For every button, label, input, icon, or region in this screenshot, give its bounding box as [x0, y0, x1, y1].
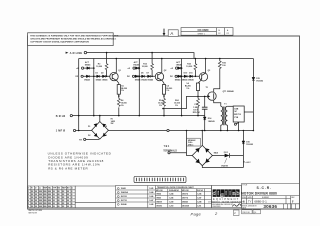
svg-text:1N645: 1N645 — [156, 197, 161, 200]
svg-text:MFG NO: MFG NO — [156, 190, 163, 192]
svg-text:88: 88 — [67, 194, 69, 196]
notes box top-left — [28, 33, 119, 46]
svg-text:1-246: 1-246 — [149, 195, 153, 198]
svg-text:QT1 2N2646: QT1 2N2646 — [223, 90, 234, 93]
junction dots bridge1 — [78, 115, 101, 132]
svg-text:1-248: 1-248 — [149, 203, 153, 206]
svg-text:8: 8 — [71, 194, 72, 196]
svg-text:T B 1: T B 1 — [164, 146, 170, 148]
svg-text:88: 88 — [35, 194, 37, 196]
svg-text:2N1774: 2N1774 — [121, 199, 127, 202]
svg-text:1-248: 1-248 — [197, 201, 201, 204]
wire stage3 row2 — [177, 75, 199, 77]
svg-text:COPYRIGHT 1969 BY DIGITAL EQUI: COPYRIGHT 1969 BY DIGITAL EQUIPMENT CORP… — [30, 41, 89, 44]
resistor R22 column — [194, 59, 196, 77]
node stage2 row2 terminal — [132, 75, 134, 77]
svg-text:30636: 30636 — [263, 204, 277, 209]
svg-text:D2: D2 — [88, 135, 90, 137]
wire stage2 row1 — [135, 67, 139, 69]
transformer T1 secondary winding — [226, 106, 228, 130]
wire stage2 row2 — [135, 75, 156, 77]
divider line to conversion chart — [75, 186, 115, 208]
svg-text:2N1774: 2N1774 — [234, 113, 242, 116]
node stage3 row2 terminal — [175, 75, 177, 77]
svg-text:Q4: Q4 — [254, 212, 256, 214]
logo block bottom row — [212, 203, 234, 208]
svg-text:888: 888 — [39, 194, 42, 196]
transistor Q2 — [155, 72, 163, 80]
svg-text:Q2: Q2 — [164, 70, 167, 72]
svg-text:88: 88 — [31, 197, 33, 199]
svg-text:888: 888 — [39, 206, 42, 208]
junction dots stage2 — [139, 52, 165, 117]
node A phase line terminal — [84, 51, 86, 53]
wire bridge2 top feed — [201, 131, 203, 146]
svg-text:100: 100 — [222, 65, 225, 67]
svg-text:88: 88 — [58, 191, 60, 193]
wire stage1 row2 — [83, 75, 110, 77]
svg-text:MODEL DESIGN BY: MODEL DESIGN BY — [242, 205, 258, 207]
svg-text:88: 88 — [53, 194, 55, 196]
svg-text:1N645: 1N645 — [85, 64, 92, 67]
svg-text:1%: 1% — [159, 105, 162, 107]
resistor R4 zigzag — [117, 98, 120, 106]
svg-text:2/2: 2/2 — [226, 33, 229, 35]
svg-text:TRANSISTOR & DIODE CONVERSION: TRANSISTOR & DIODE CONVERSION CHART — [157, 186, 195, 189]
svg-text:1-246: 1-246 — [197, 193, 201, 196]
svg-text:88: 88 — [67, 191, 69, 193]
wire terminal to bridge2 left — [170, 152, 186, 154]
svg-text:R5 & R6 ARE METER: R5 & R6 ARE METER — [48, 166, 88, 170]
svg-text:1N1692: 1N1692 — [246, 144, 253, 146]
svg-text:888: 888 — [39, 191, 42, 193]
node stage1 row2 terminal — [81, 75, 83, 77]
node inline connector circle — [167, 129, 169, 131]
resistor R3 box — [117, 85, 120, 95]
svg-text:REF: REF — [62, 187, 66, 189]
svg-text:2: 2 — [28, 194, 29, 196]
svg-text:+24 V: +24 V — [245, 161, 251, 164]
svg-text:5: 5 — [28, 203, 29, 205]
svg-text:88: 88 — [62, 203, 64, 205]
wire stage1 row1 — [84, 67, 94, 69]
diode D8 stage2 row2 — [148, 75, 151, 78]
wire secondary to SCR — [227, 105, 233, 107]
resistor R12 column — [151, 53, 153, 77]
diode D10 stage3 row2 — [178, 75, 181, 78]
connector strip — [134, 176, 186, 182]
svg-text:888: 888 — [39, 203, 42, 205]
svg-text:d: d — [213, 191, 217, 197]
svg-text:1N644: 1N644 — [84, 79, 91, 82]
drawing border frame — [28, 36, 300, 209]
node stage1 row1 terminal — [82, 67, 84, 69]
svg-text:3: 3 — [28, 197, 29, 199]
diode BR2 top-left — [195, 148, 199, 153]
svg-text:T2: T2 — [206, 87, 208, 89]
wire Q2 collector — [161, 59, 163, 73]
capacitor C3 column — [204, 96, 206, 115]
svg-text:88: 88 — [58, 200, 60, 202]
diode BR1 top-left — [94, 123, 98, 127]
svg-text:888: 888 — [48, 206, 51, 208]
stamp box with letter — [168, 30, 178, 37]
svg-text:5W: 5W — [111, 123, 114, 125]
svg-text:1-251: 1-251 — [197, 206, 201, 208]
label box MDA bridge part — [187, 138, 201, 146]
svg-text:D3: D3 — [104, 135, 106, 137]
svg-text:88: 88 — [67, 203, 69, 205]
resistor R30 column — [214, 59, 220, 93]
resistor R23 box — [196, 83, 199, 91]
labels bridge2 — [214, 141, 253, 167]
svg-text:1N4149: 1N4149 — [208, 120, 215, 123]
wire stage1 input vertical — [93, 59, 95, 116]
svg-text:CHECKED: CHECKED — [212, 206, 221, 208]
svg-text:88: 88 — [31, 200, 33, 202]
node bottom bus left terminal — [70, 115, 72, 117]
diode D12 stage3 row2 — [190, 75, 193, 78]
diode D5 stage2 row1 — [136, 67, 139, 70]
svg-text:88: 88 — [58, 203, 60, 205]
revision strip CD-6880 — [181, 28, 233, 36]
svg-text:888: 888 — [39, 197, 42, 199]
svg-text:Paɡe: Paɡe — [191, 212, 202, 217]
wire D14 column — [204, 116, 206, 131]
svg-text:6: 6 — [28, 206, 29, 208]
svg-text:1 MF Ø: 1 MF Ø — [56, 130, 66, 133]
svg-text:10,000: 10,000 — [186, 66, 192, 68]
logo digilab tiles — [213, 189, 240, 198]
svg-text:MFG NO: MFG NO — [182, 190, 189, 192]
bridge BR1 diamond — [92, 122, 109, 140]
svg-text:88: 88 — [58, 197, 60, 199]
svg-text:1-247: 1-247 — [197, 197, 201, 200]
wire +24V stub — [243, 161, 244, 163]
svg-text:1-249: 1-249 — [169, 201, 173, 204]
svg-text:88: 88 — [31, 194, 33, 196]
svg-text:THIS SCHEMATIC IS FURNISHED ON: THIS SCHEMATIC IS FURNISHED ONLY FOR TES… — [30, 35, 119, 38]
node stage2 row1 terminal — [133, 67, 135, 69]
transistor Q4 UJT — [208, 92, 216, 100]
svg-text:D6: D6 — [141, 72, 143, 74]
svg-text:88: 88 — [62, 194, 64, 196]
svg-text:888: 888 — [44, 200, 47, 202]
svg-text:D1: D1 — [88, 126, 90, 128]
svg-text:8: 8 — [71, 200, 72, 202]
node F terminal — [84, 138, 86, 140]
handwriting Page 2 — [191, 211, 219, 216]
node A LINE label — [56, 51, 83, 133]
svg-text:1-244: 1-244 — [169, 193, 173, 196]
junction dots UJT area — [162, 58, 254, 132]
svg-text:B Ø H2: B Ø H2 — [56, 115, 66, 118]
wire Q1 collector — [115, 59, 117, 73]
svg-text:REF: REF — [44, 187, 48, 189]
svg-text:RPLCM: RPLCM — [193, 112, 200, 114]
labels stage 2 — [127, 61, 172, 107]
svg-text:2N2646: 2N2646 — [182, 201, 188, 204]
diode BR1 bottom-left — [94, 133, 98, 137]
svg-text:888: 888 — [48, 191, 51, 193]
svg-text:TERMINALS: TERMINALS — [163, 149, 177, 152]
diode D4 stage1 row2 — [103, 75, 106, 78]
svg-text:SHEET 1: SHEET 1 — [198, 33, 205, 35]
wire Q2 emitter — [162, 80, 164, 84]
svg-text:A: A — [170, 31, 173, 36]
svg-text:1/2: 1/2 — [218, 33, 221, 35]
svg-text:88: 88 — [53, 206, 55, 208]
labels stage 1 — [76, 61, 128, 107]
svg-text:88: 88 — [53, 203, 55, 205]
svg-text:R30 D16: R30 D16 — [243, 212, 250, 214]
svg-text:DIG NO: DIG NO — [197, 190, 204, 192]
svg-text:1-245: 1-245 — [169, 197, 173, 200]
bridge BR2 diamond — [192, 145, 212, 165]
diode D14 — [203, 117, 206, 120]
svg-text:88: 88 — [53, 191, 55, 193]
svg-text:EQUIPMENT: EQUIPMENT — [213, 198, 240, 201]
svg-text:1%: 1% — [175, 105, 178, 107]
wire D15 column — [252, 59, 254, 131]
svg-text:10,000: 10,000 — [96, 66, 102, 68]
svg-text:2N1374: 2N1374 — [121, 195, 127, 198]
diode D7 stage2 row2 — [142, 75, 145, 78]
svg-text:8: 8 — [71, 191, 72, 193]
wire bridge2 bottom loop — [202, 166, 243, 168]
transformer T1 primary winding — [221, 106, 223, 130]
diode D11 stage3 row2 — [184, 75, 187, 78]
svg-text:b: b — [236, 191, 240, 197]
svg-text:88: 88 — [62, 191, 64, 193]
svg-text:1-250: 1-250 — [169, 206, 173, 208]
junction dots stage3 — [181, 58, 207, 117]
wire bridge1 bottom to F terminal — [86, 138, 99, 140]
svg-text:88: 88 — [35, 197, 37, 199]
svg-text:D10: D10 — [184, 72, 188, 74]
svg-text:88: 88 — [31, 191, 33, 193]
svg-text:888: 888 — [48, 200, 51, 202]
svg-text:88: 88 — [62, 200, 64, 202]
svg-text:F: F — [292, 200, 294, 204]
zener leader line — [225, 158, 227, 163]
svg-text:2N1374: 2N1374 — [182, 193, 188, 196]
wire left long vertical — [78, 59, 80, 131]
svg-text:1N4009: 1N4009 — [156, 201, 162, 204]
svg-text:1N645 1N645: 1N645 1N645 — [182, 79, 195, 82]
svg-text:88: 88 — [31, 203, 33, 205]
resistor R24 zigzag — [197, 98, 200, 106]
below frame boxes — [234, 210, 261, 216]
svg-text:10: 10 — [218, 30, 220, 32]
svg-text:D7: D7 — [147, 72, 149, 74]
wire bottom bus — [72, 115, 204, 117]
svg-text:1N645: 1N645 — [133, 64, 140, 67]
svg-text:1N645 1N645: 1N645 1N645 — [96, 79, 109, 82]
svg-text:TITLE: TITLE — [242, 185, 248, 187]
svg-text:1N645: 1N645 — [176, 64, 183, 67]
label TB1 terminals — [163, 146, 177, 153]
svg-text:88: 88 — [67, 200, 69, 202]
diode D1 stage1 row1 — [87, 67, 90, 70]
node 1MF terminal — [73, 129, 75, 131]
svg-text:1-245: 1-245 — [149, 187, 153, 190]
svg-text:88: 88 — [67, 206, 69, 208]
svg-text:CIRCUITS ARE PROPRIETARY IN NA: CIRCUITS ARE PROPRIETARY IN NATURE AND S… — [30, 38, 116, 41]
wire Q4 base1 to transformer — [214, 100, 221, 106]
resistor R14 zigzag — [163, 98, 166, 106]
svg-text:1N645: 1N645 — [121, 187, 126, 190]
svg-text:8: 8 — [71, 206, 72, 208]
diode D2 stage1 row2 — [86, 75, 89, 78]
diode D3 stage1 row2 — [97, 75, 100, 78]
svg-text:1%: 1% — [121, 90, 124, 92]
node SCR gate terminal — [236, 123, 238, 124]
wire stage3 input vertical — [181, 59, 183, 116]
svg-text:888: 888 — [48, 194, 51, 196]
wire bridge2 left feed — [187, 131, 193, 156]
svg-text:888: 888 — [44, 203, 47, 205]
svg-text:D4B: D4B — [234, 107, 238, 110]
svg-text:888: 888 — [48, 203, 51, 205]
wire top rail — [87, 53, 194, 59]
svg-text:NUMBER: NUMBER — [262, 197, 270, 199]
svg-text:1N644: 1N644 — [175, 79, 182, 82]
svg-text:88: 88 — [62, 206, 64, 208]
svg-text:888: 888 — [44, 194, 47, 196]
svg-text:888: 888 — [44, 197, 47, 199]
svg-text:1%: 1% — [186, 88, 189, 90]
wire top bus — [79, 58, 254, 60]
wire Q3 emitter — [198, 80, 201, 83]
svg-text:10,000: 10,000 — [142, 66, 148, 68]
wire stage2 input vertical — [138, 59, 140, 116]
down arrow marker at top — [163, 29, 166, 36]
svg-text:1: 1 — [28, 191, 29, 193]
zener diode ZD1 — [225, 154, 230, 158]
node terminal circle bridge2 feed — [168, 152, 170, 154]
svg-text:2N1774: 2N1774 — [182, 197, 188, 200]
wire Q3 collector — [205, 59, 207, 74]
svg-text:88: 88 — [35, 191, 37, 193]
diode Q4 emitter arrow — [207, 95, 210, 98]
svg-text:88: 88 — [35, 200, 37, 202]
svg-text:1%: 1% — [166, 90, 169, 92]
svg-text:4: 4 — [28, 199, 29, 202]
svg-text:1-247: 1-247 — [149, 199, 153, 202]
svg-text:88: 88 — [67, 197, 69, 199]
svg-text:88: 88 — [58, 194, 60, 196]
svg-text:P1B: P1B — [234, 117, 238, 119]
svg-text:SEE NOTE: SEE NOTE — [28, 213, 37, 215]
diode BR1 bottom-right — [103, 133, 107, 137]
svg-text:88: 88 — [35, 206, 37, 208]
svg-text:1N644: 1N644 — [156, 193, 161, 196]
diode BR2 top-right — [205, 148, 209, 153]
labels UJT area — [193, 63, 263, 123]
wire Q1 emitter — [117, 80, 119, 84]
svg-text:1-244: 1-244 — [149, 191, 153, 194]
svg-text:8: 8 — [71, 203, 72, 205]
svg-text:TY: TY — [248, 200, 252, 204]
diode BR1 top-right — [103, 124, 107, 128]
transformer T1 core — [223, 107, 225, 126]
svg-text:88: 88 — [58, 206, 60, 208]
capacitor C3 plates — [202, 107, 208, 109]
svg-text:A Ø LINE: A Ø LINE — [70, 51, 83, 55]
svg-text:2HD-1: 2HD-1 — [188, 145, 193, 147]
svg-text:FØ: FØ — [127, 76, 130, 78]
tiny note below table — [28, 209, 42, 214]
svg-text:1N1692: 1N1692 — [156, 206, 162, 208]
svg-text:888: 888 — [44, 206, 47, 208]
svg-text:Q3: Q3 — [208, 70, 211, 72]
svg-text:DIGILAB NO: DIGILAB NO — [169, 189, 180, 192]
svg-text:1N4749: 1N4749 — [221, 164, 228, 167]
svg-text:1%: 1% — [121, 105, 124, 107]
wire +24V column — [242, 131, 244, 168]
svg-text:88: 88 — [31, 206, 33, 208]
svg-text:88: 88 — [53, 200, 55, 202]
diode BR2 bottom-left — [195, 159, 199, 164]
svg-text:1N1692: 1N1692 — [256, 81, 263, 83]
svg-text:2EC3638: 2EC3638 — [182, 206, 189, 208]
wire SCR anode — [244, 111, 253, 113]
svg-text:1N4009A: 1N4009A — [121, 191, 129, 194]
labels bridge1 — [79, 118, 115, 141]
diode D16 — [242, 141, 245, 144]
svg-text:CD-6880: CD-6880 — [198, 28, 210, 32]
svg-text:88: 88 — [53, 197, 55, 199]
diode D6 stage2 row2 — [135, 75, 138, 78]
resistor R2 column — [106, 53, 108, 77]
svg-text:S.C.R.: S.C.R. — [257, 186, 272, 190]
svg-text:2N2646: 2N2646 — [121, 203, 127, 206]
diode D15 — [252, 77, 255, 80]
wire bridge1 top feed — [99, 116, 101, 122]
diode D9 stage3 row1 — [178, 67, 181, 70]
diode BR2 bottom-right — [205, 158, 209, 163]
wire UJT emitter feed — [163, 96, 207, 108]
resistor R13 box — [162, 85, 165, 95]
transistor Q3 — [199, 73, 207, 81]
wire long line 1MF — [76, 130, 254, 132]
transistor Q1 — [110, 72, 118, 80]
junction dots stage1 — [93, 52, 120, 117]
labels stage 3 — [170, 61, 210, 107]
wire zener line — [212, 155, 243, 157]
svg-text:88: 88 — [35, 203, 37, 205]
svg-text:FØ: FØ — [170, 76, 173, 78]
svg-text:888: 888 — [44, 191, 47, 193]
SCR box — [233, 106, 244, 122]
svg-text:888: 888 — [48, 197, 51, 199]
wire stage3 row1 — [178, 67, 182, 69]
wire SCR cathode — [238, 122, 240, 131]
svg-text:MOTOR DRIVER 6880: MOTOR DRIVER 6880 — [241, 192, 277, 196]
svg-text:8: 8 — [71, 197, 72, 199]
svg-text:B: B — [243, 200, 245, 204]
node stage3 row1 terminal — [176, 67, 178, 69]
signature scribble — [232, 204, 241, 207]
svg-text:1N645 1N645: 1N645 1N645 — [141, 79, 154, 82]
svg-text:D2: D2 — [101, 72, 103, 74]
svg-text:88: 88 — [62, 197, 64, 199]
svg-text:888: 888 — [39, 200, 42, 202]
